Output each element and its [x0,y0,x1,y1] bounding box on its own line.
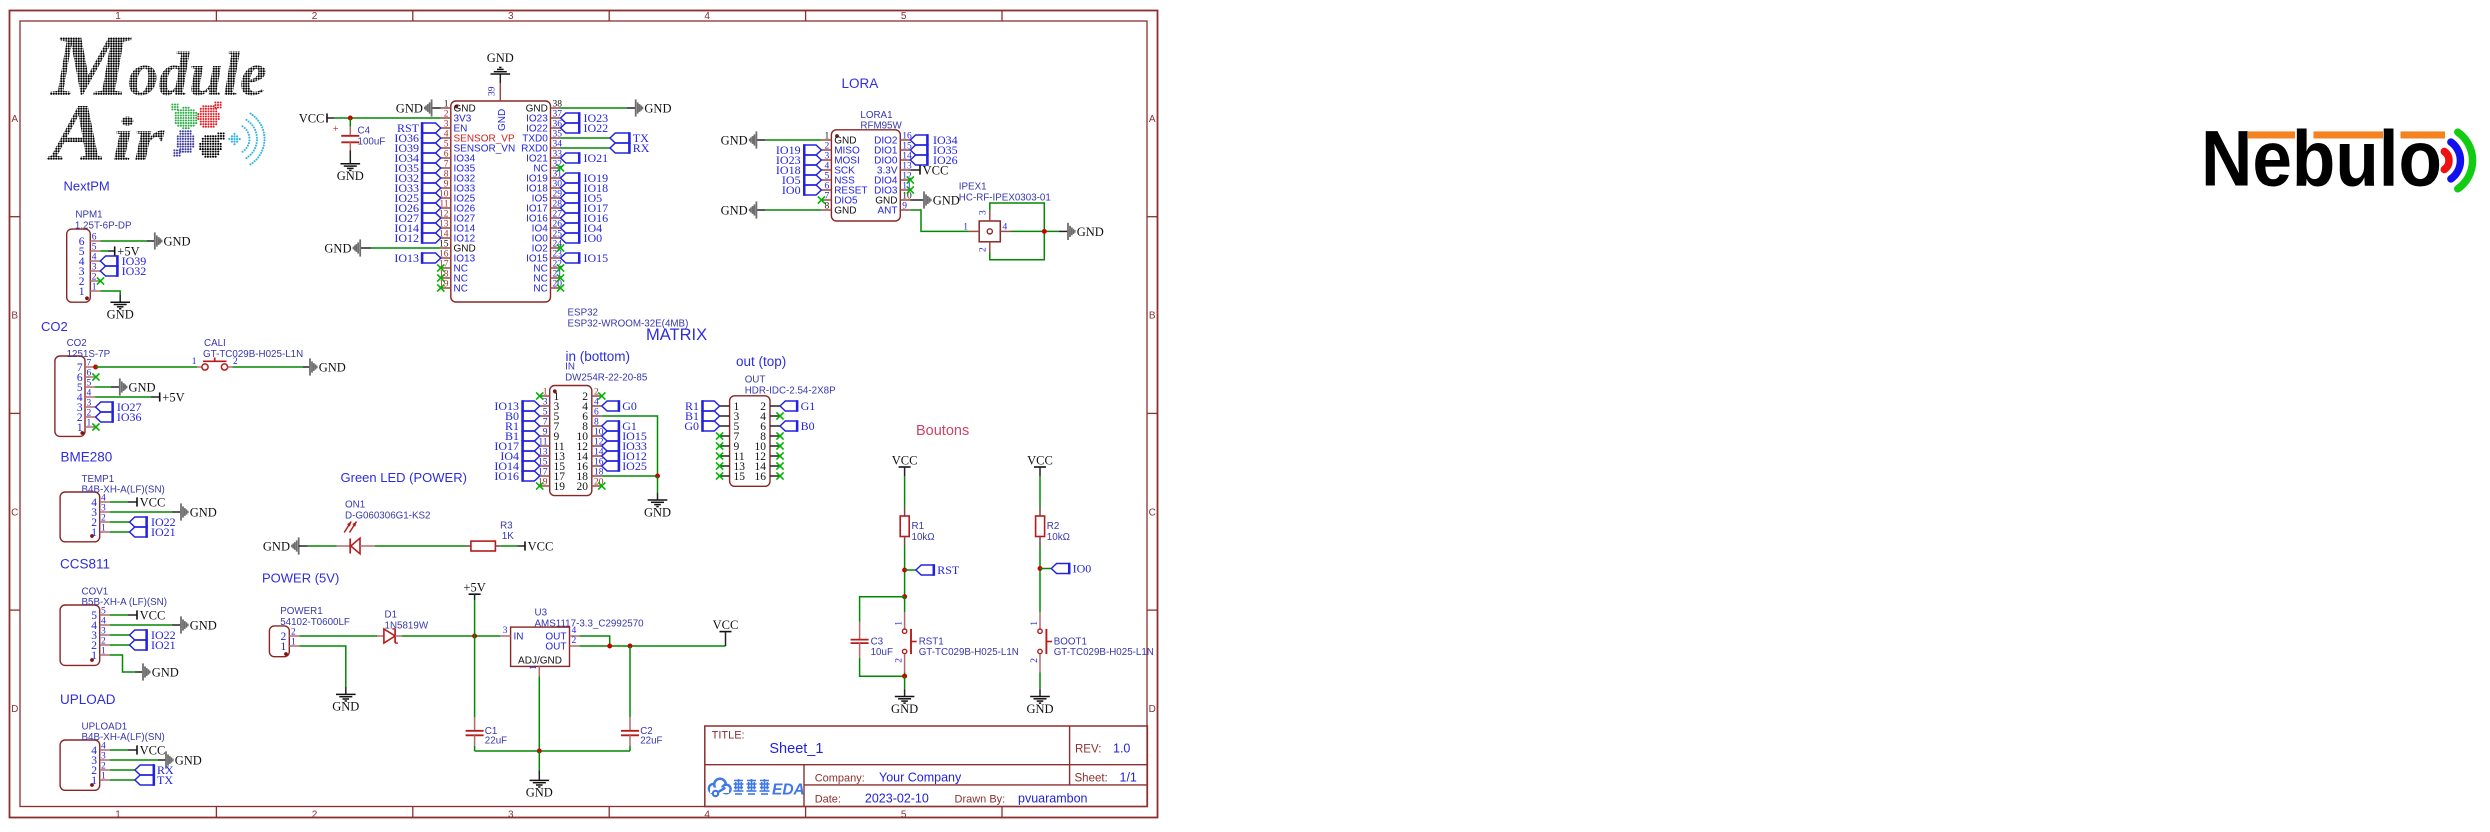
power +5V at NPM1 pin5 [114,246,116,255]
svg-text:1: 1 [192,357,197,367]
net flag RST [916,564,934,576]
wire TEMP1 pin2 [110,521,130,523]
no-connect OUT pin 8 [776,432,783,439]
no-connect OUT pin 10 [776,442,783,449]
wire ESP32 pin34 RXD0 [561,147,611,149]
net flag IO21 [130,526,147,538]
wire R2 to IO0 node [1039,546,1041,612]
svg-text:3: 3 [101,752,106,762]
net flag IO12 at ESP32 pin 14 [422,232,441,244]
net flag IO21 at COV1 [130,639,147,651]
CO2 pin 5 [85,386,95,388]
ground GND at TEMP1 pin3 [180,503,189,520]
svg-text:1: 1 [87,419,92,429]
net flag IO4 at IN [523,450,540,462]
svg-text:D: D [1149,704,1156,715]
ESP32 pin 24 IO2 [551,247,561,249]
net flag IO39 [100,255,117,267]
svg-text:3: 3 [508,809,514,820]
no-connect OUT pin 16 [776,472,783,479]
wire rail to GND [538,751,540,771]
svg-text:LORA: LORA [842,76,879,91]
IN pin1 marker [553,389,557,393]
svg-text:RX: RX [633,141,650,155]
svg-text:D1: D1 [385,610,398,621]
junction +5V rail [472,634,477,639]
CO2 pin 1 [85,426,95,428]
no-connect NPM1 pin2 [97,277,104,284]
wire U3 ADJ to rail [538,676,540,751]
TEMP1 pin1 marker [90,534,94,538]
svg-text:1/1: 1/1 [1120,771,1137,785]
svg-text:HDR-IDC-2.54-2X8P: HDR-IDC-2.54-2X8P [745,385,836,396]
ground GND at U3 [530,780,550,787]
svg-text:VCC: VCC [140,743,166,757]
ground GND at IPEX1 [1067,223,1076,240]
svg-text:1: 1 [291,638,296,648]
svg-text:GND: GND [337,169,364,183]
junction C4/VCC [348,116,353,121]
CO2 pin 6 [85,376,95,378]
net flag IO27 at ESP32 pin 12 [422,212,441,224]
svg-text:15: 15 [734,471,746,483]
ESP32 pin 32 NC [551,167,561,169]
net flag G0 at IN [602,400,619,412]
ESP32 pin 21 NC [551,277,561,279]
wire D1 to U3 IN [402,635,501,637]
ESP32 pin 29 IO5 [551,197,561,199]
svg-text:GND: GND [152,665,179,679]
wire +5V down [474,600,476,636]
junction GND rail [537,749,542,754]
ESP32 pin 10 IO25 [441,197,451,199]
wire IO0 stub [1040,568,1051,570]
wire LORA1 pin9 ANT to IPEX1 [910,210,969,231]
svg-text:GND: GND [107,308,134,322]
ESP32 pin 6 IO34 [441,157,451,159]
logo wifi dots [228,113,265,166]
logo Nebulo [2201,114,2473,203]
net flag IO12 at IN [602,450,619,462]
svg-text:6: 6 [444,150,449,160]
svg-text:4: 4 [444,130,449,140]
IN pin 16 [592,465,602,467]
net flag IO14 at ESP32 pin 13 [422,222,441,234]
svg-text:B: B [11,311,18,322]
power VCC at LORA1 pin13 [919,165,921,174]
CO2 pin1 marker [80,431,84,435]
svg-text:2: 2 [895,658,905,663]
net flag TX at ESP32 [610,132,630,144]
no-connect ESP32 pin17 [437,264,444,271]
svg-text:2: 2 [572,636,577,646]
svg-text:4: 4 [704,809,710,820]
connector COV1 [60,605,100,665]
svg-text:1: 1 [91,775,97,787]
svg-text:VCC: VCC [140,495,166,509]
no-connect OUT pin 15 [716,472,723,479]
svg-text:B: B [1149,311,1156,322]
svg-text:19: 19 [554,481,566,493]
svg-text:IO13: IO13 [394,251,419,265]
svg-text:IO21: IO21 [151,525,176,539]
IN pin 6 [592,415,602,417]
svg-text:4: 4 [101,617,106,627]
wire CALI to GND [233,366,304,368]
no-connect OUT pin 4 [776,412,783,419]
net flag IO33 at IN [602,440,619,452]
ground GND at ESP32 pin1 [432,107,441,109]
ESP32 pin 18 NC [441,277,451,279]
svg-text:EDA: EDA [772,782,805,799]
IN pin 19 [540,485,550,487]
OUT pin 16 [770,475,780,477]
svg-text:5: 5 [444,140,449,150]
svg-text:39: 39 [488,86,498,96]
wire U3 pin2 to VCC [580,645,726,647]
wire UPLOAD1 pin3 to GND [110,759,158,761]
LORA1 pin 7 DIO5 [821,199,831,201]
LORA1 pin 11 DIO3 [900,189,910,191]
ground GND at LORA1 pin10 [923,191,932,208]
svg-text:54102-T0600LF: 54102-T0600LF [280,617,350,628]
wire C4 to GND [349,151,351,164]
LORA1 pin 1 GND [821,139,831,141]
COV1 pin 2 [100,644,110,646]
svg-text:IO0: IO0 [584,231,603,245]
U3 pin 3 IN [501,635,511,637]
svg-text:VCC: VCC [299,111,325,125]
wire ESP32 pin38 to GND [561,107,628,109]
svg-text:UPLOAD: UPLOAD [60,692,116,707]
wire IN pin6 to GND rail [602,416,658,476]
svg-text:16: 16 [755,471,767,483]
no-connect LORA1 pin7 [818,196,825,203]
svg-text:CCS811: CCS811 [60,557,110,572]
svg-text:IN: IN [565,362,575,373]
power VCC at UPLOAD1 pin4 [136,745,138,754]
net flag IO32 [100,265,117,277]
LORA1 pin1 marker [835,134,839,138]
no-connect OUT pin 7 [716,432,723,439]
wire VCC to R2 [1039,476,1041,507]
LED ON1 [337,522,375,554]
no-connect CO2 pin6 [92,373,99,380]
ground GND at LORA1 pin8 [749,201,758,218]
net flag IO15 at IN [602,430,619,442]
svg-text:GND: GND [263,539,290,553]
svg-text:GND: GND [526,786,553,800]
svg-text:4: 4 [824,162,829,172]
ground GND at CALI [309,358,318,375]
svg-text:1: 1 [101,647,106,657]
net flag R1 at OUT [702,400,719,412]
svg-text:ADJ/GND: ADJ/GND [518,656,562,667]
svg-text:IO0: IO0 [1073,562,1092,576]
ESP32 pin 37 IO23 [551,117,561,119]
TEMP1 pin 4 [100,501,110,503]
junction C3 bottom [902,674,907,679]
svg-text:2023-02-10: 2023-02-10 [865,792,929,806]
wire CO2 pin4 to +5V [95,396,151,398]
ESP32 pin 27 IO16 [551,217,561,219]
svg-text:GT-TC029B-H025-L1N: GT-TC029B-H025-L1N [919,647,1019,658]
svg-text:GND: GND [396,101,423,115]
OUT pin 8 [770,435,780,437]
no-connect IN pin1 [536,392,543,399]
svg-text:GND: GND [332,700,359,714]
LORA1 pin 3 MOSI [821,159,831,161]
OUT pin 5 [720,425,730,427]
IN pin 9 [540,435,550,437]
wire COV1 pin2 [110,644,130,646]
svg-text:CO2: CO2 [67,338,87,349]
net flag IO18 at LORA1 [804,164,821,176]
OUT pin 4 [770,415,780,417]
CO2 pin 7 [85,366,95,368]
diode D1 1N5819W [377,629,402,643]
net flag IO34 at LORA1 [910,134,927,146]
IN pin 20 [592,485,602,487]
power VCC right button [1034,466,1046,468]
svg-text:IO0: IO0 [782,183,801,197]
svg-text:7: 7 [444,160,449,170]
OUT pin 9 [720,445,730,447]
svg-text:5: 5 [543,408,548,418]
wire LORA1 pin8 to GND [765,209,821,211]
svg-text:R3: R3 [500,520,513,531]
no-connect ESP32 pin32 [557,164,564,171]
svg-text:1: 1 [895,621,905,626]
capacitor C4 [333,124,359,152]
ground GND at UPLOAD1 pin3 [165,751,174,768]
TEMP1 pin 3 [100,511,110,513]
svg-text:22uF: 22uF [640,736,662,747]
svg-text:10kΩ: 10kΩ [912,532,935,543]
svg-text:GND: GND [497,109,508,131]
connector TEMP1 [60,492,100,542]
wire +5V rail to C1 [474,636,476,717]
svg-text:1: 1 [529,665,539,670]
svg-text:VCC: VCC [923,163,949,177]
power VCC left button [899,466,911,468]
svg-text:2: 2 [824,142,829,152]
svg-text:BME280: BME280 [61,450,113,465]
svg-text:2: 2 [101,637,106,647]
net flag IO22 [130,516,147,528]
svg-text:GT-TC029B-H025-L1N: GT-TC029B-H025-L1N [1054,647,1154,658]
wire TEMP1 pin3 to GND [110,511,172,513]
svg-text:A: A [46,87,106,178]
svg-text:OUT: OUT [745,375,766,386]
svg-text:1: 1 [1030,621,1040,626]
svg-text:GND: GND [190,618,217,632]
resistor R3 [466,541,501,551]
svg-text:3: 3 [503,626,508,636]
UPLOAD1 pin 1 [100,779,110,781]
svg-text:RST1: RST1 [919,636,944,647]
wire BOOT1 to GND [1039,673,1041,690]
OUT pin 13 [720,465,730,467]
svg-text:TX: TX [157,773,173,787]
logo Module Air [46,18,267,178]
svg-text:5: 5 [901,809,907,820]
svg-text:IO15: IO15 [584,251,609,265]
ground GND at ON1 [291,537,299,554]
IN pin 3 [540,405,550,407]
UPLOAD1 pin1 marker [90,783,94,787]
wire POWER1 pin1 to GND [299,646,346,687]
ground GND at NPM1 pin1 [110,302,130,309]
no-connect OUT pin 14 [776,462,783,469]
CO2 pin 2 [85,416,95,418]
ESP32 pin 38 GND [551,107,561,109]
ESP32 pin 5 SENSOR_VN [441,147,451,149]
wire ESP32 pin35 TXD0 [561,137,611,139]
svg-text:GND: GND [834,206,856,217]
net flag RX at ESP32 [610,142,630,154]
svg-text:8: 8 [594,418,599,428]
svg-text:1: 1 [824,132,829,142]
wire C1 to rail [474,746,476,751]
ESP32 pin 12 IO27 [441,217,451,219]
switch CALI [197,358,233,371]
wire TEMP1 pin4 to VCC [110,501,128,503]
svg-text:Drawn By:: Drawn By: [955,794,1006,806]
svg-text:VCC: VCC [140,608,166,622]
svg-text:1: 1 [115,809,121,820]
IN pin 11 [540,445,550,447]
ground GND at COV1 pin4 [180,616,189,633]
wire POWER1 pin2 to D1 [299,635,377,637]
svg-text:3: 3 [824,152,829,162]
junction CO2 pin7 [93,365,98,370]
net flag RX [135,764,154,776]
svg-text:LORA1: LORA1 [860,110,892,121]
pushbutton RST1 [902,612,916,673]
svg-text:CO2: CO2 [41,319,68,334]
svg-text:GND: GND [1026,702,1053,716]
no-connect IN pin2 [598,392,605,399]
ESP32 pin 11 IO26 [441,207,451,209]
svg-text:2: 2 [444,110,449,120]
svg-text:3: 3 [978,210,988,215]
ESP32 pin 8 IO32 [441,177,451,179]
svg-text:9: 9 [543,428,548,438]
capacitor C1 [466,717,484,746]
COV1 pin 3 [100,634,110,636]
wire ESP32 pin39 to GND [499,75,501,84]
wire RST stub [905,569,916,571]
svg-text:B4B-XH-A(LF)(SN): B4B-XH-A(LF)(SN) [82,485,165,496]
svg-text:DW254R-22-20-85: DW254R-22-20-85 [565,372,648,383]
svg-text:1: 1 [79,286,85,298]
svg-text:NC: NC [533,284,547,295]
svg-text:IO36: IO36 [117,410,142,424]
ESP32 pin 17 NC [441,267,451,269]
wire IPEX1 pin3 loop [990,203,1045,231]
LORA1 pin 8 GND [821,209,831,211]
svg-text:GND: GND [164,234,191,248]
svg-text:3: 3 [92,263,97,273]
svg-text:OUT: OUT [545,642,566,653]
svg-text:GND: GND [129,380,156,394]
svg-text:Sheet_1: Sheet_1 [769,741,823,757]
net flag G0 at OUT [702,420,719,432]
ESP32 pin 2 3V3 [441,117,451,119]
net flag IO35 at ESP32 pin 7 [422,162,441,174]
OUT pin 6 [770,425,780,427]
wire ESP32 pin15 to GND [371,247,441,249]
LORA1 pin 12 DIO4 [900,179,910,181]
svg-text:100uF: 100uF [358,136,386,147]
svg-text:GND: GND [324,241,351,255]
svg-text:NPM1: NPM1 [75,209,102,220]
svg-text:GND: GND [644,101,671,115]
connector CO2 [55,356,85,436]
svg-text:GND: GND [175,753,202,767]
LORA1 pin 14 DIO0 [900,159,910,161]
wire COV1 pin1 to GND [110,655,135,672]
svg-text:IN: IN [514,632,524,643]
ESP32 pin 19 NC [441,287,451,289]
ground GND at IN [648,500,668,507]
svg-text:IO16: IO16 [494,469,519,483]
svg-text:R1: R1 [912,521,925,532]
svg-text:POWER (5V): POWER (5V) [262,571,339,586]
svg-text:1: 1 [281,641,287,653]
no-connect IN pin20 [598,482,605,489]
svg-text:5: 5 [824,172,829,182]
svg-text:ANT: ANT [878,206,898,217]
svg-text:IO21: IO21 [584,151,609,165]
wire IN pin18 to GND rail [602,475,658,477]
wire ON1 to R3 [375,545,466,547]
wire COV1 pin4 to GND [110,624,172,626]
svg-text:5: 5 [101,607,106,617]
COV1 pin1 marker [90,658,94,662]
LORA1 pin 13 3.3V [900,169,910,171]
LORA1 pin 5 NSS [821,179,831,181]
svg-text:6: 6 [824,182,829,192]
svg-text:IO32: IO32 [122,264,147,278]
U3 pin 4 OUT [570,635,580,637]
svg-text:2: 2 [1030,658,1040,663]
UPLOAD1 pin 4 [100,749,110,751]
svg-text:4: 4 [87,389,92,399]
svg-text:1: 1 [543,388,548,398]
connector OUT HDR-IDC-2.54-2X8P [730,396,770,487]
net flag IO19 at LORA1 [804,144,821,156]
net flag TX [135,774,154,786]
power VCC at U3 output [720,631,732,633]
ESP32 pin 9 IO33 [441,187,451,189]
ESP32 pin 14 IO12 [441,237,451,239]
power +5V at CO2 pin4 [159,392,161,401]
wire C3 bottom [860,658,905,677]
resistor R1 [900,507,909,546]
OUT pin 3 [720,415,730,417]
NPM1 pin1 marker [85,296,89,300]
svg-text:odule: odule [128,41,267,109]
LORA1 pin 16 DIO2 [900,139,910,141]
net flag IO0 at ESP32 pin 25 [561,232,580,244]
svg-text:C: C [1149,507,1156,518]
svg-text:3: 3 [101,504,106,514]
svg-text:IO21: IO21 [151,638,176,652]
ESP32 pin 23 IO15 [551,257,561,259]
CO2 pin 4 [85,396,95,398]
